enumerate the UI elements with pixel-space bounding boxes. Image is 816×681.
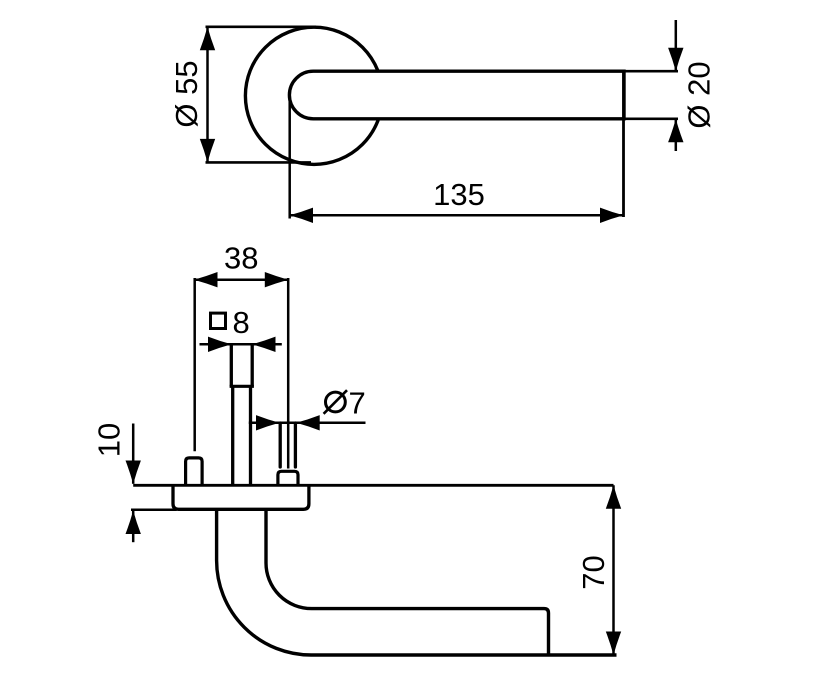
handle neck inner line and grip top edge [266,509,549,655]
svg-text:7: 7 [349,386,366,421]
door face line [133,484,613,487]
rose plate (side view, 10mm thick) [173,485,309,509]
Ø20 top extension line (bar top edge extended) [624,70,678,73]
dimension Ø20 arrows [668,20,683,151]
135 left extension line (from bar cap) [288,98,291,219]
135 right extension line (bar end) [622,71,625,217]
dimension Ø7 line with inward arrows [249,415,366,430]
svg-text:38: 38 [224,241,258,276]
spindle (8mm square bar), upper part [230,344,254,386]
10 bottom extension line (plate underside) [131,509,177,512]
square symbol for spindle [211,313,226,328]
svg-text:135: 135 [433,177,485,212]
dimension 8 line with inward arrows [200,337,282,352]
dimension 10: lower arrow [126,511,141,543]
dimension label 8 [233,305,250,340]
dimension Ø55 dimension line with arrows [200,27,215,163]
38 left extension line [193,278,196,451]
lever bar (stadium, covers circle) [289,71,624,119]
svg-text:Ø 20: Ø 20 [682,61,717,128]
dimension label 10 [91,423,126,457]
dimension label 135 [433,177,485,212]
handle neck outer line and grip bottom edge [217,509,617,655]
dimension 10: upper arrow [126,424,141,485]
dimension label 38 [224,241,258,276]
spindle lower part [233,386,251,485]
svg-text:70: 70 [576,555,611,589]
svg-text:8: 8 [233,305,250,340]
fixing screw head [278,471,298,485]
38 right extension line (screw centre line) [287,278,290,469]
svg-text:Ø 55: Ø 55 [169,60,204,127]
dimension label 70 [576,555,611,589]
dimension Ø55 bottom extension line [206,161,312,164]
dimension 135 line with arrows [290,208,624,223]
left locating pin [186,458,203,485]
dimension 70 line with arrows [606,485,621,655]
dimension Ø55 top extension line [206,25,317,28]
svg-text:10: 10 [91,423,126,457]
Ø20 bottom extension line (bar bottom edge extended) [624,118,678,121]
dimension label Ø 55 [169,60,204,127]
dimension label Ø 20 [682,61,717,128]
dimension label Ø7 [324,386,366,421]
fixing screw shaft lines (Ø7) [280,423,295,467]
dimension 38 line with arrows [194,272,288,287]
rose circle (Ø55) [245,27,382,164]
